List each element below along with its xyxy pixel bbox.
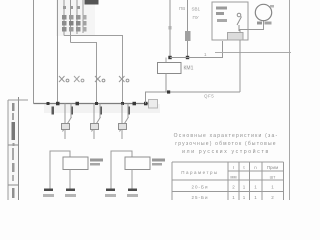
- svg-text:Параметры: Параметры: [181, 170, 219, 175]
- junction dots on bus: [47, 102, 148, 106]
- control bus wire: [170, 41, 223, 58]
- breaker glyph on feeder 1: [59, 76, 69, 82]
- cabinet inner text marks: [216, 7, 227, 23]
- cabinet boundary line: [215, 52, 291, 54]
- motor M circle: [255, 4, 271, 20]
- table row 1 text: [192, 185, 275, 190]
- breaker glyph on feeder 2: [95, 76, 105, 82]
- svg-text:КМ1: КМ1: [184, 66, 194, 72]
- breaker glyph on feeder mid: [74, 76, 84, 82]
- PA2 bottom labels: [105, 194, 138, 197]
- ground ticks PA2: [106, 189, 137, 192]
- junction dots on control bus: [168, 56, 189, 59]
- breaker glyph on feeder 3: [119, 76, 129, 82]
- parameters table grid: [172, 162, 284, 200]
- svg-text:шт: шт: [270, 175, 276, 180]
- incoming feeder line: [33, 0, 35, 104]
- motor labels: [257, 22, 272, 25]
- scan tint behind transformer cluster: [56, 0, 95, 36]
- relay coil KM1: [158, 58, 182, 93]
- fuse FU on L2: [185, 31, 191, 41]
- control riser wire: [146, 92, 241, 104]
- contactor contact glyph: [237, 13, 242, 31]
- svg-text:QF5: QF5: [204, 94, 214, 99]
- svg-text:мм: мм: [230, 175, 236, 180]
- bus end box: [149, 100, 158, 109]
- metering circuit PA1: [50, 151, 88, 189]
- PA1 bottom labels: [43, 194, 76, 197]
- feeder switch QS3: [119, 104, 129, 140]
- svg-text:I: I: [233, 165, 234, 170]
- control supply wire L1: [169, 0, 171, 58]
- svg-text:SВ1: SВ1: [192, 7, 201, 12]
- svg-text:Основные характеристики (за-: Основные характеристики (за-: [174, 133, 279, 139]
- svg-text:грузочные) обмоток (бытовые: грузочные) обмоток (бытовые: [175, 141, 277, 147]
- PA1 label: [90, 159, 103, 166]
- motor branch wire: [240, 20, 264, 33]
- phase feeder wire to group 2: [71, 43, 97, 104]
- starter cabinet box: [212, 2, 248, 40]
- junction dot node: [167, 90, 170, 93]
- svg-text:20-Би: 20-Би: [192, 185, 209, 190]
- left sheet frame column: [8, 97, 28, 200]
- motor M feed wire: [239, 40, 241, 92]
- transformer T1 coil blobs: [62, 15, 87, 32]
- feeder switch QS1: [62, 104, 72, 140]
- table row 2 text: [192, 195, 275, 200]
- phase letter marks: [63, 6, 80, 9]
- frame tick top: [270, 5, 274, 8]
- notes text block: [174, 133, 279, 155]
- left column rotated text marks: [12, 103, 16, 198]
- ground ticks PA1: [44, 189, 75, 192]
- svg-text:или русских устройств: или русских устройств: [182, 148, 270, 155]
- svg-text:ПУ: ПУ: [193, 15, 199, 20]
- svg-text:25-Би: 25-Би: [192, 195, 209, 200]
- scan tint band under bus: [44, 104, 160, 113]
- cabinet terminal block: [228, 33, 244, 41]
- table header text: [181, 165, 278, 180]
- svg-text:ПВ: ПВ: [179, 6, 185, 11]
- main bus 0.4kV: [34, 103, 158, 105]
- control supply wire L2: [187, 0, 189, 58]
- svg-text:Прим: Прим: [267, 165, 278, 170]
- phase feeder wire to group 3: [64, 36, 123, 104]
- PA2 label: [152, 159, 165, 166]
- sheet frame right border: [289, 0, 291, 200]
- transformer T1 winding cluster: [58, 0, 84, 104]
- metering circuit PA2: [111, 151, 150, 189]
- fuse stubs under bus: [52, 107, 131, 115]
- transformer label dark box: [85, 0, 99, 5]
- small mark on L1: [169, 26, 172, 30]
- feeder switch QS2: [91, 104, 101, 140]
